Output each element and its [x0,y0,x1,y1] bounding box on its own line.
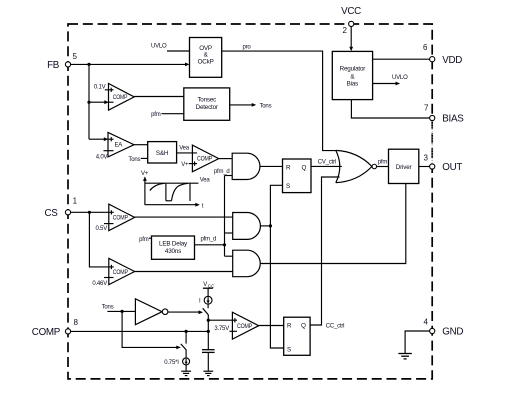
wire AND2 node down to FF2 S [270,226,283,348]
svg-text:LEB Delay: LEB Delay [159,240,188,247]
wire AND3 out to Driver bottom [260,184,406,264]
svg-text:V+: V+ [141,171,149,177]
ground symbol at GND pin [398,354,411,359]
svg-text:OCkP: OCkP [198,58,214,65]
wire COMP2 out to AND1 [219,158,233,160]
0.5V reference stub [95,224,113,232]
current source 0.75*I [164,358,189,371]
svg-text:2: 2 [343,26,348,35]
svg-text:EA: EA [115,143,123,149]
svg-text:430ns: 430ns [165,248,181,255]
wire V+ reference to COMP2 plus [181,161,197,168]
wire GND pin to ground [405,331,430,354]
OVP &amp; OCkP block U1 [190,38,222,78]
comparator COMP5 [232,312,258,339]
comparator COMP4 [109,258,135,284]
svg-text:R: R [286,165,291,172]
svg-text:Tons: Tons [128,157,140,163]
pin 1 CS [44,197,77,219]
svg-text:UVLO: UVLO [151,44,167,50]
svg-text:0.75*I: 0.75*I [164,360,179,366]
3.75V reference stub [214,326,237,332]
ground under capacitor [203,371,213,375]
svg-text:pfm: pfm [139,237,149,243]
svg-text:GND: GND [442,327,463,338]
svg-text:0.46V: 0.46V [92,281,107,287]
wire AND1 out to FF1 R [260,165,283,167]
switch SW2 branch [181,331,187,358]
wire node to COMP5 plus [208,318,237,322]
pin 2 VCC [341,6,361,35]
wire COMP3 out to AND2 [135,216,233,218]
wire UVLO input to OVP [151,44,190,51]
NOR gate U2 [336,150,377,182]
wire pfm_d net vertical with branches [214,169,233,256]
wire FB trunk down [87,64,90,139]
wire pfm into LEB Delay [139,237,151,243]
wire Regulator bottom to BIAS pin [351,100,429,118]
S&H block [148,142,177,163]
wire FF2 Q CC_ctrl up to NOR [310,177,344,330]
svg-text:pfm_d: pfm_d [201,237,217,243]
svg-text:pro: pro [243,44,252,50]
wire NOR out pfm to Driver [377,159,389,166]
svg-text:7: 7 [424,103,429,112]
svg-text:pfm_d: pfm_d [214,169,230,175]
svg-text:CC: CC [208,283,215,288]
AND gate AND2 [233,213,261,240]
svg-text:0.1V: 0.1V [94,85,106,91]
svg-text:Tons: Tons [260,104,272,110]
wire EA out to S&H [134,144,148,146]
wire pro from OVP to NOR top input [222,44,337,150]
wire COMP pin line [71,330,210,333]
wire Regulator to VDD pin [373,58,430,60]
svg-text:Bias: Bias [347,81,359,88]
wire LEB Delay out pfm_d [195,237,225,245]
svg-text:pfm: pfm [151,112,161,118]
wire CS to COMP3 plus [71,210,114,214]
AND gate AND1 [232,153,260,179]
wire COMP4 out to AND3 [135,271,233,273]
switch SW1 [203,308,209,315]
IC dashed boundary [68,24,432,379]
svg-text:4: 4 [424,318,429,327]
svg-text:COMP: COMP [113,95,128,101]
pin 5 FB [47,52,77,71]
wire Tons to inverter [102,304,136,313]
svg-text:8: 8 [74,318,79,327]
svg-text:3.75V: 3.75V [214,326,229,332]
wire FB to comparator COMP1 minus [89,100,114,104]
wire Tons ctrl to switch SW2 [122,311,181,349]
Regulator & Bias block [332,51,372,99]
pin 8 COMP [32,318,79,338]
svg-text:V+: V+ [181,162,189,168]
error amplifier EA [108,132,134,157]
wire comp node vertical [207,315,210,350]
svg-text:UVLO: UVLO [392,75,408,81]
AND gate AND3 [233,250,261,277]
LEB Delay block [152,236,195,259]
svg-text:FB: FB [47,60,60,71]
pin 6 VDD [423,43,462,66]
wire pfm into Tonsec Detector [151,112,184,118]
svg-text:COMP: COMP [113,216,128,222]
wire AND2 out node [260,224,272,227]
wire FF1 S from AND2 node [270,185,282,226]
comparator COMP5 output to FF2 R [259,325,284,327]
svg-text:4.0V: 4.0V [96,155,108,161]
wire Driver out to OUT pin [419,166,430,168]
comparator COMP1 [109,84,135,111]
RS flip-flop FF1 [283,159,312,193]
dotted link BIAS to OUT [431,121,433,164]
4.0V reference stub [96,151,114,161]
svg-text:COMP: COMP [197,157,212,163]
comparator COMP3 [109,204,135,231]
svg-text:Q: Q [302,165,307,172]
comparator COMP2 pfm [192,145,218,172]
svg-text:Driver: Driver [396,164,412,171]
svg-text:OUT: OUT [442,162,462,173]
svg-text:0.5V: 0.5V [95,226,107,232]
svg-text:S: S [286,183,290,190]
pin 4 GND [424,318,464,338]
svg-text:VCC: VCC [341,6,361,17]
ground under 0.75*I [181,371,191,375]
Driver block [389,149,419,183]
svg-text:COMP: COMP [237,324,252,330]
svg-text:Vea: Vea [200,178,211,184]
0.1V reference stub [94,85,114,92]
svg-text:Regulator: Regulator [340,66,366,73]
svg-text:Vea: Vea [179,146,190,152]
svg-text:3: 3 [424,153,429,162]
svg-text:6: 6 [423,43,428,52]
pin 7 BIAS [424,103,464,124]
wire FF1 Q CV_ctrl to NOR [311,160,342,167]
svg-text:COMP: COMP [113,270,128,276]
pin 3 OUT [424,153,463,173]
capacitor C1 [202,350,215,371]
inverter U3 [135,299,168,325]
waveform plot V+ [141,171,210,210]
wire inverter out to switch SW1 [168,310,203,314]
wire CS trunk down to COMP4 plus [89,212,113,269]
wire Vea from S&H to COMP2 minus [177,146,197,153]
RS flip-flop FF2 [284,317,310,355]
svg-text:VDD: VDD [442,55,462,66]
Vcc rail above current source [203,282,215,296]
wire Tons into S&H [128,157,147,163]
svg-text:COMP: COMP [32,327,61,338]
svg-text:Detector: Detector [196,104,218,111]
svg-text:CV_ctrl: CV_ctrl [318,160,336,166]
0.46V reference stub [92,278,113,287]
svg-text:Q: Q [301,323,306,330]
svg-text:BIAS: BIAS [442,114,464,125]
svg-text:V: V [203,282,207,288]
svg-text:S: S [287,346,291,353]
svg-text:CS: CS [44,208,58,219]
wire UVLO output of Regulator [373,75,408,86]
svg-text:1: 1 [73,197,78,206]
Tonsec Detector block [184,88,230,120]
svg-text:S&H: S&H [156,150,169,157]
svg-text:Tons: Tons [102,304,114,310]
wire Tonsec Detector output Tons [230,103,272,110]
svg-text:CC_ctrl: CC_ctrl [326,324,345,330]
svg-text:5: 5 [73,52,78,61]
wire VCC down into Regulator [349,27,353,52]
svg-text:pfm: pfm [378,159,388,165]
current source I [199,296,212,308]
wire COMP1 out to Tonsec Detector [134,96,184,98]
svg-text:Tonsec: Tonsec [197,97,216,104]
wire FB horizontal to OVP [71,63,190,67]
wire FB to EA plus [89,137,114,141]
svg-text:R: R [287,323,292,330]
